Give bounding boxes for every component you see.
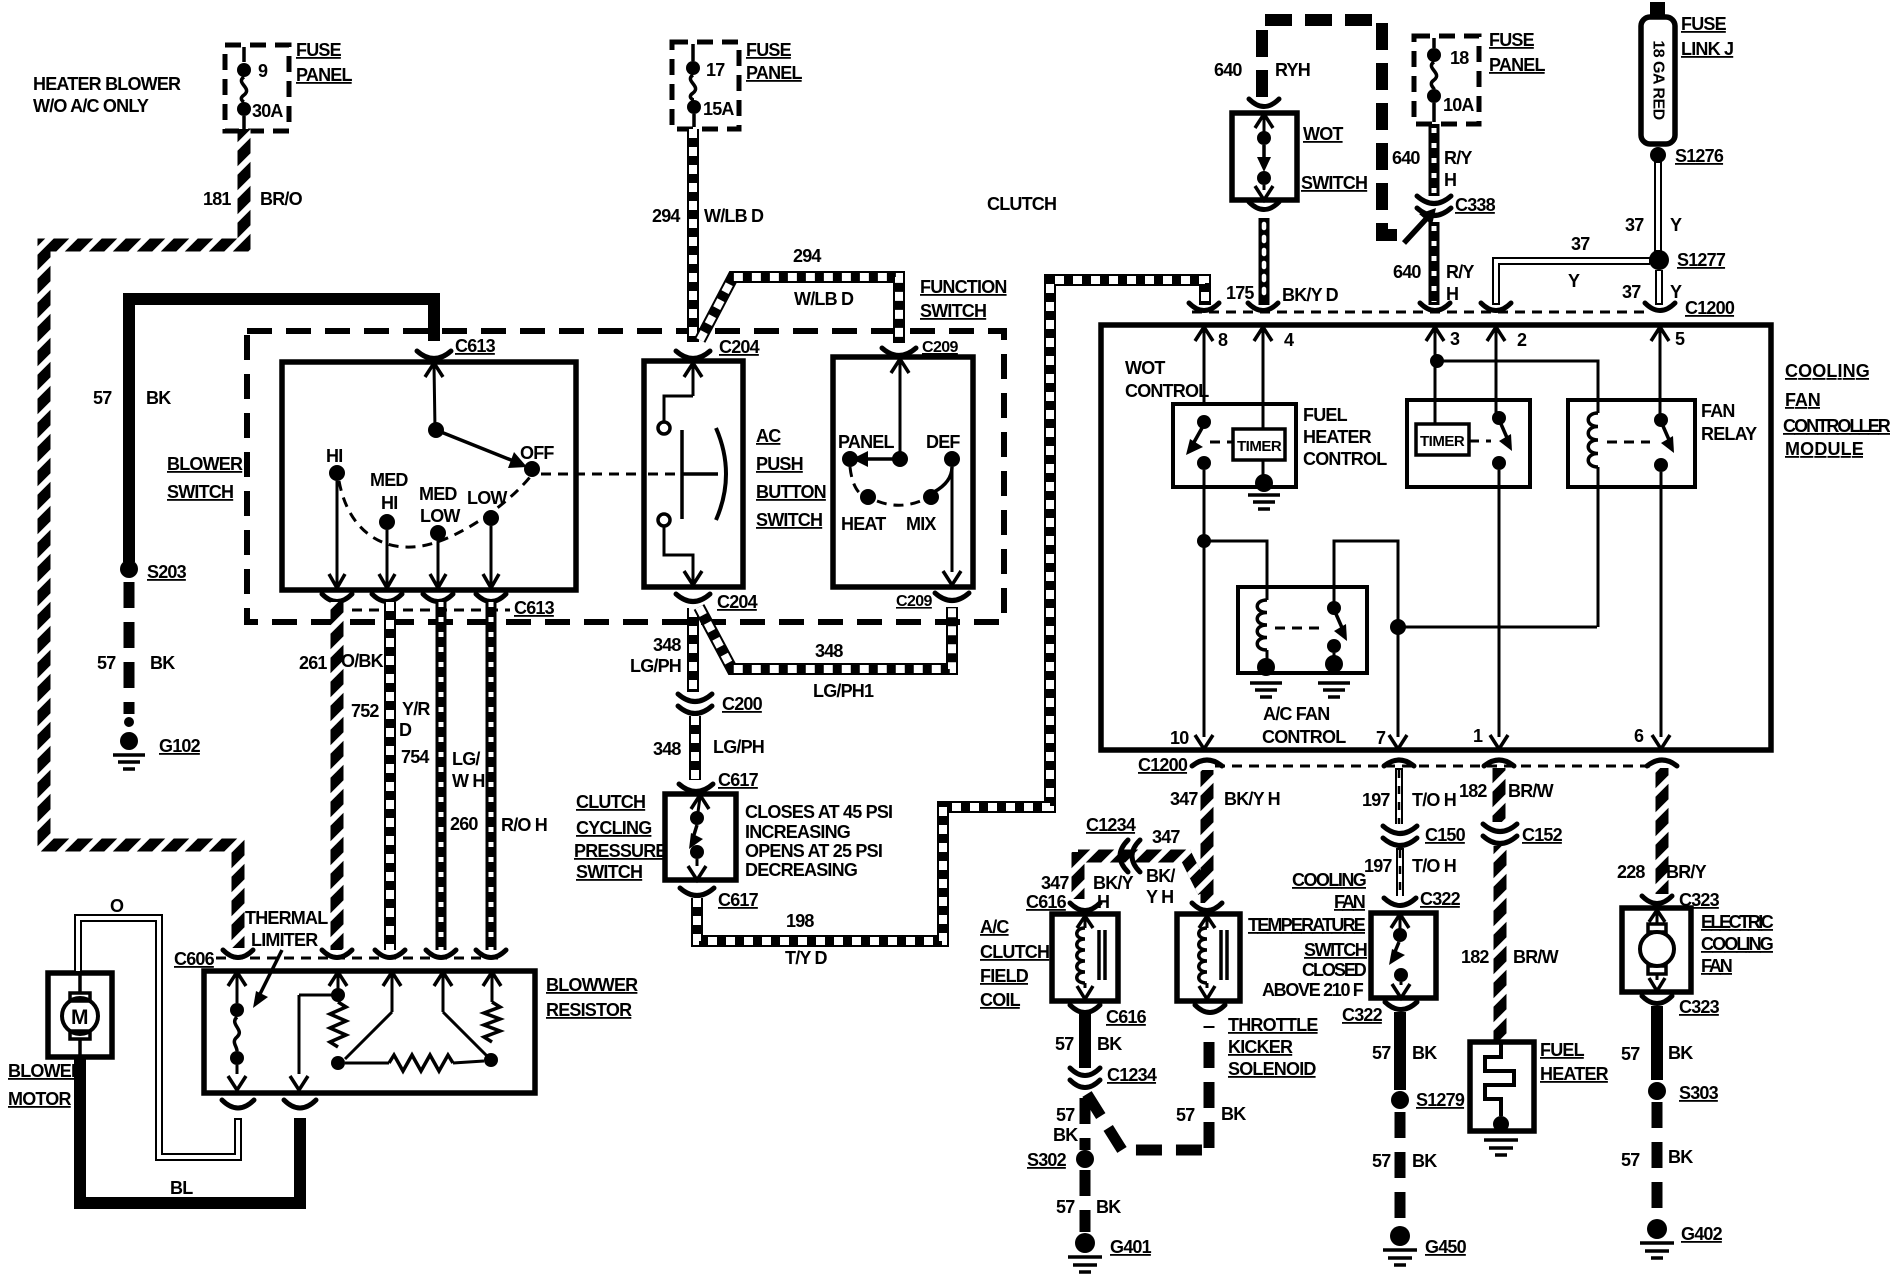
svg-text:347: 347 [1041, 873, 1069, 893]
svg-text:RYH: RYH [1275, 60, 1310, 80]
svg-text:BK/Y: BK/Y [1093, 873, 1134, 893]
svg-text:15A: 15A [703, 99, 734, 119]
wire 57 BK to S302 [1053, 1098, 1085, 1150]
svg-text:CLUTCH: CLUTCH [576, 792, 645, 812]
A/C clutch field coil box [1052, 914, 1118, 1001]
fan relay switch [1607, 413, 1674, 487]
svg-text:754: 754 [401, 747, 429, 767]
entry arrow [664, 363, 702, 421]
svg-text:5: 5 [1675, 329, 1685, 349]
svg-text:PANEL: PANEL [838, 432, 894, 452]
svg-text:BR/W: BR/W [1513, 947, 1559, 967]
svg-text:DECREASING: DECREASING [745, 860, 857, 880]
wire 57 BK to G402 [1621, 1102, 1693, 1218]
label 57 BK [93, 388, 171, 408]
svg-text:FIELD: FIELD [980, 966, 1029, 986]
svg-text:228: 228 [1617, 862, 1645, 882]
resistor R1 [330, 1002, 346, 1070]
svg-text:7: 7 [1376, 728, 1386, 748]
wire pin8 to pin10 [1195, 487, 1213, 749]
wire 57 BK dashed [97, 582, 175, 714]
svg-text:C1234: C1234 [1086, 815, 1136, 835]
svg-text:S1276: S1276 [1675, 146, 1724, 166]
relay coil K1 [1257, 600, 1275, 676]
svg-text:A/C FAN: A/C FAN [1263, 704, 1329, 724]
svg-text:W/LB D: W/LB D [794, 289, 854, 309]
svg-text:BK/Y H: BK/Y H [1224, 789, 1280, 809]
svg-text:37: 37 [1622, 282, 1641, 302]
plunger bar and link [682, 428, 726, 520]
temp switch internals [1389, 914, 1410, 998]
dashed mech link to AC switch [541, 473, 680, 476]
svg-text:181: 181 [203, 189, 231, 209]
C338 branch arrow [1404, 208, 1436, 243]
diagonal 752 to node B [345, 1012, 392, 1059]
svg-text:BK: BK [1053, 1125, 1078, 1145]
wire junction to coil [1204, 541, 1267, 600]
svg-text:30A: 30A [252, 101, 283, 121]
connector WOT top [1249, 99, 1279, 107]
wire BL thick [80, 1057, 300, 1203]
svg-text:C616: C616 [1026, 892, 1067, 912]
entry arrow [425, 363, 443, 429]
svg-text:752: 752 [351, 701, 379, 721]
connector C200 [678, 694, 763, 714]
svg-text:MIX: MIX [906, 514, 936, 534]
label clutch [987, 194, 1056, 214]
wire pin1 [1490, 487, 1508, 749]
svg-text:W/LB D: W/LB D [704, 206, 764, 226]
connector C152 [1483, 824, 1563, 845]
labels 347 BK/Y H left [1041, 873, 1134, 912]
svg-text:FUSE: FUSE [1489, 30, 1535, 50]
svg-text:PANEL: PANEL [296, 65, 352, 85]
svg-text:C616: C616 [1106, 1007, 1147, 1027]
wire 37 Y rail lower [1622, 270, 1682, 305]
svg-text:57: 57 [1372, 1043, 1391, 1063]
svg-text:640: 640 [1214, 60, 1242, 80]
svg-text:BK/Y D: BK/Y D [1282, 285, 1339, 305]
blower motor [48, 973, 112, 1057]
connector C606 row [174, 949, 506, 969]
ground G450 [1383, 1226, 1467, 1265]
label function switch [920, 277, 1007, 321]
svg-text:640: 640 [1393, 262, 1421, 282]
wire 182 BR/W lower [1461, 846, 1559, 1042]
svg-text:348: 348 [653, 635, 681, 655]
DEF wire exit [943, 467, 961, 585]
svg-text:CLUTCH: CLUTCH [987, 194, 1056, 214]
label fuse panel 1 [296, 40, 352, 85]
label ac push button switch [756, 426, 826, 530]
connector C150 [1383, 825, 1466, 846]
svg-text:C323: C323 [1679, 997, 1720, 1017]
svg-text:OPENS AT 25 PSI: OPENS AT 25 PSI [745, 841, 882, 861]
relay K1 switch [1275, 541, 1398, 673]
svg-text:AC: AC [756, 426, 781, 446]
fuse panel box F9 [225, 45, 289, 131]
junction pin7 [1389, 619, 1597, 749]
svg-text:BLOWWER: BLOWWER [546, 975, 638, 995]
svg-text:ABOVE 210 F: ABOVE 210 F [1262, 980, 1364, 1000]
svg-text:BLOWER: BLOWER [167, 454, 243, 474]
svg-text:2: 2 [1517, 330, 1527, 350]
connector C338 [1417, 195, 1496, 216]
svg-text:H: H [1446, 284, 1458, 304]
svg-text:FUNCTION: FUNCTION [920, 277, 1007, 297]
svg-text:8: 8 [1218, 330, 1228, 350]
fuel heater control box 2 [1407, 400, 1530, 487]
svg-text:OFF: OFF [520, 443, 554, 463]
svg-text:640: 640 [1392, 148, 1420, 168]
fuse panel box F18 [1414, 36, 1479, 124]
svg-text:T/O H: T/O H [1412, 790, 1456, 810]
svg-text:PUSH: PUSH [756, 454, 803, 474]
clutch cycling pressure switch box [665, 794, 736, 880]
svg-text:BK: BK [1412, 1043, 1437, 1063]
svg-text:FUSE: FUSE [296, 40, 342, 60]
fuse link J pill [1641, 2, 1675, 144]
svg-text:THROTTLE: THROTTLE [1228, 1015, 1318, 1035]
svg-text:C322: C322 [1420, 889, 1461, 909]
svg-text:BK: BK [1668, 1043, 1693, 1063]
fuse 9 30A [237, 47, 283, 129]
connector C616 top [1026, 892, 1100, 912]
svg-text:SWITCH: SWITCH [167, 482, 233, 502]
label fuel heater [1540, 1040, 1609, 1084]
ground G401 [1068, 1233, 1152, 1272]
svg-text:Y: Y [1568, 271, 1580, 291]
label cooling fan temperature switch [1248, 870, 1367, 1000]
label cooling fan controller module [1783, 361, 1890, 459]
switch internals [688, 795, 709, 880]
labels panel def heat mix [838, 432, 960, 534]
svg-text:C150: C150 [1425, 825, 1466, 845]
svg-text:TEMPERATURE: TEMPERATURE [1248, 915, 1366, 935]
wire 182 BR/W upper [1459, 768, 1554, 822]
splice S203 [120, 560, 187, 582]
svg-text:C338: C338 [1455, 195, 1496, 215]
svg-text:WOT: WOT [1125, 358, 1165, 378]
svg-text:CYCLING: CYCLING [576, 818, 651, 838]
label C1200 top [1685, 298, 1735, 318]
svg-text:COOLING: COOLING [1292, 870, 1366, 890]
svg-text:KICKER: KICKER [1228, 1037, 1293, 1057]
function switch box [833, 357, 973, 587]
svg-text:Y: Y [1670, 282, 1682, 302]
svg-text:LOW: LOW [420, 506, 460, 526]
svg-text:57: 57 [93, 388, 112, 408]
wire 197 T/O H lower [1364, 848, 1456, 896]
connector C613 bottom row [322, 594, 555, 618]
diagonal 754 to node C [443, 1012, 487, 1056]
resistor R2 [484, 1002, 500, 1067]
svg-text:CONTROL: CONTROL [1303, 449, 1387, 469]
wire 57 BK below temp switch [1372, 1012, 1437, 1090]
svg-text:BK: BK [146, 388, 171, 408]
svg-text:THERMAL: THERMAL [245, 908, 328, 928]
label WOT control [1125, 358, 1209, 401]
svg-text:T/Y D: T/Y D [785, 948, 827, 968]
svg-text:INCREASING: INCREASING [745, 822, 850, 842]
svg-text:COOLING: COOLING [1785, 361, 1869, 381]
svg-text:37: 37 [1625, 215, 1644, 235]
svg-text:BR/O: BR/O [260, 189, 303, 209]
wire 37 Y rail upper [1625, 160, 1682, 252]
svg-text:SWITCH: SWITCH [1301, 173, 1367, 193]
label 175 BK/Y D bus [0, 0, 1, 1]
svg-text:C1200: C1200 [1685, 298, 1735, 318]
svg-text:57: 57 [1372, 1151, 1391, 1171]
svg-text:BR/Y: BR/Y [1666, 862, 1707, 882]
label throttle kicker solenoid [1228, 1015, 1318, 1079]
splice S1279 [1391, 1090, 1465, 1110]
svg-text:17: 17 [706, 60, 725, 80]
svg-text:LG/PH: LG/PH [630, 656, 681, 676]
fan relay coil K2 [1588, 400, 1598, 627]
connector C1234 bottom [1070, 1065, 1157, 1088]
pin 8 entry [1195, 327, 1228, 404]
svg-text:HEATER: HEATER [1303, 427, 1372, 447]
COOLING FAN CONTROLLER MODULE box [1101, 325, 1771, 750]
label fuse panel 2 [746, 40, 802, 83]
svg-text:57: 57 [1055, 1034, 1074, 1054]
svg-text:1: 1 [1473, 726, 1483, 746]
svg-text:6: 6 [1634, 726, 1644, 746]
svg-text:S1277: S1277 [1677, 250, 1726, 270]
svg-text:C617: C617 [718, 770, 759, 790]
svg-text:348: 348 [815, 641, 843, 661]
timer T1 [1210, 429, 1285, 475]
svg-text:CLOSES AT 45 PSI: CLOSES AT 45 PSI [745, 802, 892, 822]
svg-text:CONTROLLER: CONTROLLER [1783, 416, 1890, 436]
fuse 18 10A [1427, 38, 1474, 122]
svg-text:18: 18 [1450, 48, 1469, 68]
label fuse link j [1681, 14, 1733, 59]
fuse panel box F17 [672, 42, 739, 129]
svg-text:4: 4 [1284, 330, 1294, 350]
entry arrow [891, 359, 909, 452]
switch pivot and arm [428, 422, 527, 468]
svg-text:TIMER: TIMER [1237, 438, 1282, 455]
wire 197 T/O H upper [1362, 768, 1456, 824]
svg-text:LIMITER: LIMITER [251, 930, 318, 950]
label blower switch [167, 454, 243, 502]
timer T2 [1416, 424, 1491, 455]
bottom pin labels [1170, 726, 1644, 748]
svg-text:S302: S302 [1027, 1150, 1067, 1170]
svg-text:FAN: FAN [1701, 401, 1735, 421]
thermal limiter element [228, 972, 246, 1090]
connector C209 bottom [896, 593, 969, 610]
svg-text:FUEL: FUEL [1303, 405, 1348, 425]
wires to C613 bottom with arrows [329, 481, 345, 588]
svg-text:O/BK: O/BK [341, 651, 384, 671]
svg-text:LG/: LG/ [452, 749, 480, 769]
svg-text:G401: G401 [1110, 1237, 1152, 1257]
wire 347 branch via C1234 [1078, 852, 1204, 899]
dashed wiper arc [339, 477, 530, 547]
wire 228 BR/Y [1617, 768, 1707, 894]
svg-text:COIL: COIL [980, 990, 1021, 1010]
wire 754 LG/W H [401, 602, 485, 950]
fan relay box [1568, 400, 1757, 487]
svg-text:C209: C209 [922, 339, 959, 356]
svg-text:PANEL: PANEL [1489, 55, 1545, 75]
label 181 BR/O [203, 189, 303, 209]
svg-text:S1279: S1279 [1416, 1090, 1465, 1110]
svg-text:PANEL: PANEL [746, 63, 802, 83]
svg-text:BK: BK [150, 653, 175, 673]
svg-text:HEAT: HEAT [841, 514, 886, 534]
svg-text:18 GA RED: 18 GA RED [1650, 40, 1667, 119]
OFF contact [520, 443, 554, 477]
svg-text:BK: BK [1097, 1034, 1122, 1054]
wire 181 BR/O hatched [44, 129, 244, 948]
svg-text:C152: C152 [1522, 825, 1563, 845]
svg-text:BK: BK [1096, 1197, 1121, 1217]
WOT control box [1173, 404, 1296, 487]
svg-text:C1200: C1200 [1138, 755, 1188, 775]
svg-text:SWITCH: SWITCH [1304, 940, 1367, 960]
connector C322 bottom [1342, 1002, 1417, 1025]
svg-text:175: 175 [1226, 283, 1254, 303]
connector TKS bottom [1195, 1005, 1225, 1013]
WOT switch internals [1255, 114, 1273, 200]
svg-text:57: 57 [1621, 1044, 1640, 1064]
C1200 brackets top row [1189, 303, 1675, 311]
svg-text:CLUTCH: CLUTCH [980, 942, 1049, 962]
svg-text:T/O H: T/O H [1412, 856, 1456, 876]
connector TKS top [1192, 903, 1222, 911]
svg-text:MED: MED [419, 484, 457, 504]
svg-text:WOT: WOT [1303, 124, 1343, 144]
ground under coil [1250, 683, 1282, 697]
svg-text:W/O A/C ONLY: W/O A/C ONLY [33, 96, 149, 116]
label blower motor [8, 1061, 84, 1109]
svg-text:BK: BK [1221, 1104, 1246, 1124]
svg-text:C204: C204 [717, 592, 758, 612]
cooling fan temperature switch box [1371, 913, 1436, 998]
ground G102 [113, 717, 201, 769]
pin 2 entry [1487, 327, 1527, 414]
svg-text:SOLENOID: SOLENOID [1228, 1059, 1316, 1079]
heater element [1485, 1044, 1514, 1132]
wire 294 branch ladder [700, 246, 899, 343]
wire 37 Y rail horizontal from pin2 [1496, 234, 1650, 305]
svg-text:COOLING: COOLING [1701, 934, 1773, 954]
wire 640 R/Y H lower [1393, 222, 1474, 305]
label WOT switch [1301, 124, 1367, 193]
svg-text:C613: C613 [514, 598, 555, 618]
svg-text:R/Y: R/Y [1444, 148, 1472, 168]
connector C617 top [679, 770, 759, 792]
label A/C clutch field coil [980, 917, 1049, 1010]
svg-text:182: 182 [1461, 947, 1489, 967]
svg-text:HEATER: HEATER [1540, 1064, 1609, 1084]
svg-text:10: 10 [1170, 728, 1189, 748]
pin 5 entry [1651, 327, 1685, 416]
throttle kicker solenoid box [1177, 914, 1240, 1001]
svg-text:G102: G102 [159, 736, 201, 756]
svg-text:57: 57 [1176, 1105, 1195, 1125]
wire 57 BK trunk [129, 299, 434, 562]
svg-text:W H: W H [452, 771, 485, 791]
wire 752 Y/R D ladder [351, 602, 430, 950]
contact circles [658, 422, 670, 526]
pin 3 entry [1426, 327, 1460, 424]
label fuel heater control [1303, 405, 1387, 469]
svg-text:C613: C613 [455, 336, 496, 356]
svg-text:MOTOR: MOTOR [8, 1089, 71, 1109]
svg-text:A/C: A/C [980, 917, 1009, 937]
svg-text:S203: S203 [147, 562, 187, 582]
svg-text:294: 294 [793, 246, 821, 266]
fuel heater box [1470, 1042, 1534, 1131]
electric cooling fan box [1622, 908, 1691, 992]
svg-text:H: H [1444, 170, 1456, 190]
connector C204 bottom [676, 592, 758, 612]
svg-text:O: O [110, 896, 124, 916]
blower switch box [282, 362, 576, 590]
svg-text:294: 294 [652, 206, 680, 226]
svg-text:FAN: FAN [1785, 390, 1820, 410]
svg-text:HI: HI [381, 493, 397, 513]
svg-text:BK: BK [1668, 1147, 1693, 1167]
wire 261 O/BK hatched [299, 602, 384, 950]
ground under K1 switch [1318, 683, 1350, 697]
connector C204 top [676, 337, 760, 359]
connector C616 bottom [1070, 1005, 1147, 1027]
svg-text:Y H: Y H [1146, 887, 1173, 907]
label A/C fan control [1262, 704, 1346, 747]
LOW contact [467, 488, 507, 526]
wire 175 BK/Y D dotted [1226, 218, 1339, 305]
svg-text:C1234: C1234 [1107, 1065, 1157, 1085]
svg-text:HI: HI [326, 446, 342, 466]
svg-text:260: 260 [450, 814, 478, 834]
ac push button switch box [644, 361, 743, 587]
svg-text:BLOWER: BLOWER [8, 1061, 84, 1081]
svg-text:C322: C322 [1342, 1005, 1383, 1025]
wire 348 LG/PH ladder [630, 608, 693, 692]
dashed selector arc [850, 467, 952, 505]
svg-text:C617: C617 [718, 890, 759, 910]
svg-text:SWITCH: SWITCH [576, 862, 642, 882]
svg-text:57: 57 [1056, 1105, 1075, 1125]
wire 348 LG/PH lower [653, 716, 764, 780]
connector C323 bottom [1642, 996, 1720, 1017]
coil L2 [1199, 916, 1227, 999]
svg-text:MED: MED [370, 470, 408, 490]
svg-text:MODULE: MODULE [1785, 439, 1864, 459]
svg-text:CONTROL: CONTROL [1262, 727, 1346, 747]
note closes at 45 psi [745, 802, 892, 880]
wire 640 RYH dashed [1214, 20, 1404, 235]
svg-text:FUSE: FUSE [746, 40, 792, 60]
svg-text:S303: S303 [1679, 1083, 1719, 1103]
svg-text:347: 347 [1152, 827, 1180, 847]
svg-text:RESISTOR: RESISTOR [546, 1000, 632, 1020]
svg-text:Y/R: Y/R [402, 699, 430, 719]
svg-text:57: 57 [97, 653, 116, 673]
svg-text:FAN: FAN [1701, 956, 1732, 976]
splice S303 [1648, 1082, 1719, 1103]
label fuse panel 3 [1489, 30, 1545, 75]
svg-text:LINK J: LINK J [1681, 39, 1733, 59]
wire 294 W/LB D ladder [652, 129, 764, 342]
svg-text:198: 198 [786, 911, 814, 931]
